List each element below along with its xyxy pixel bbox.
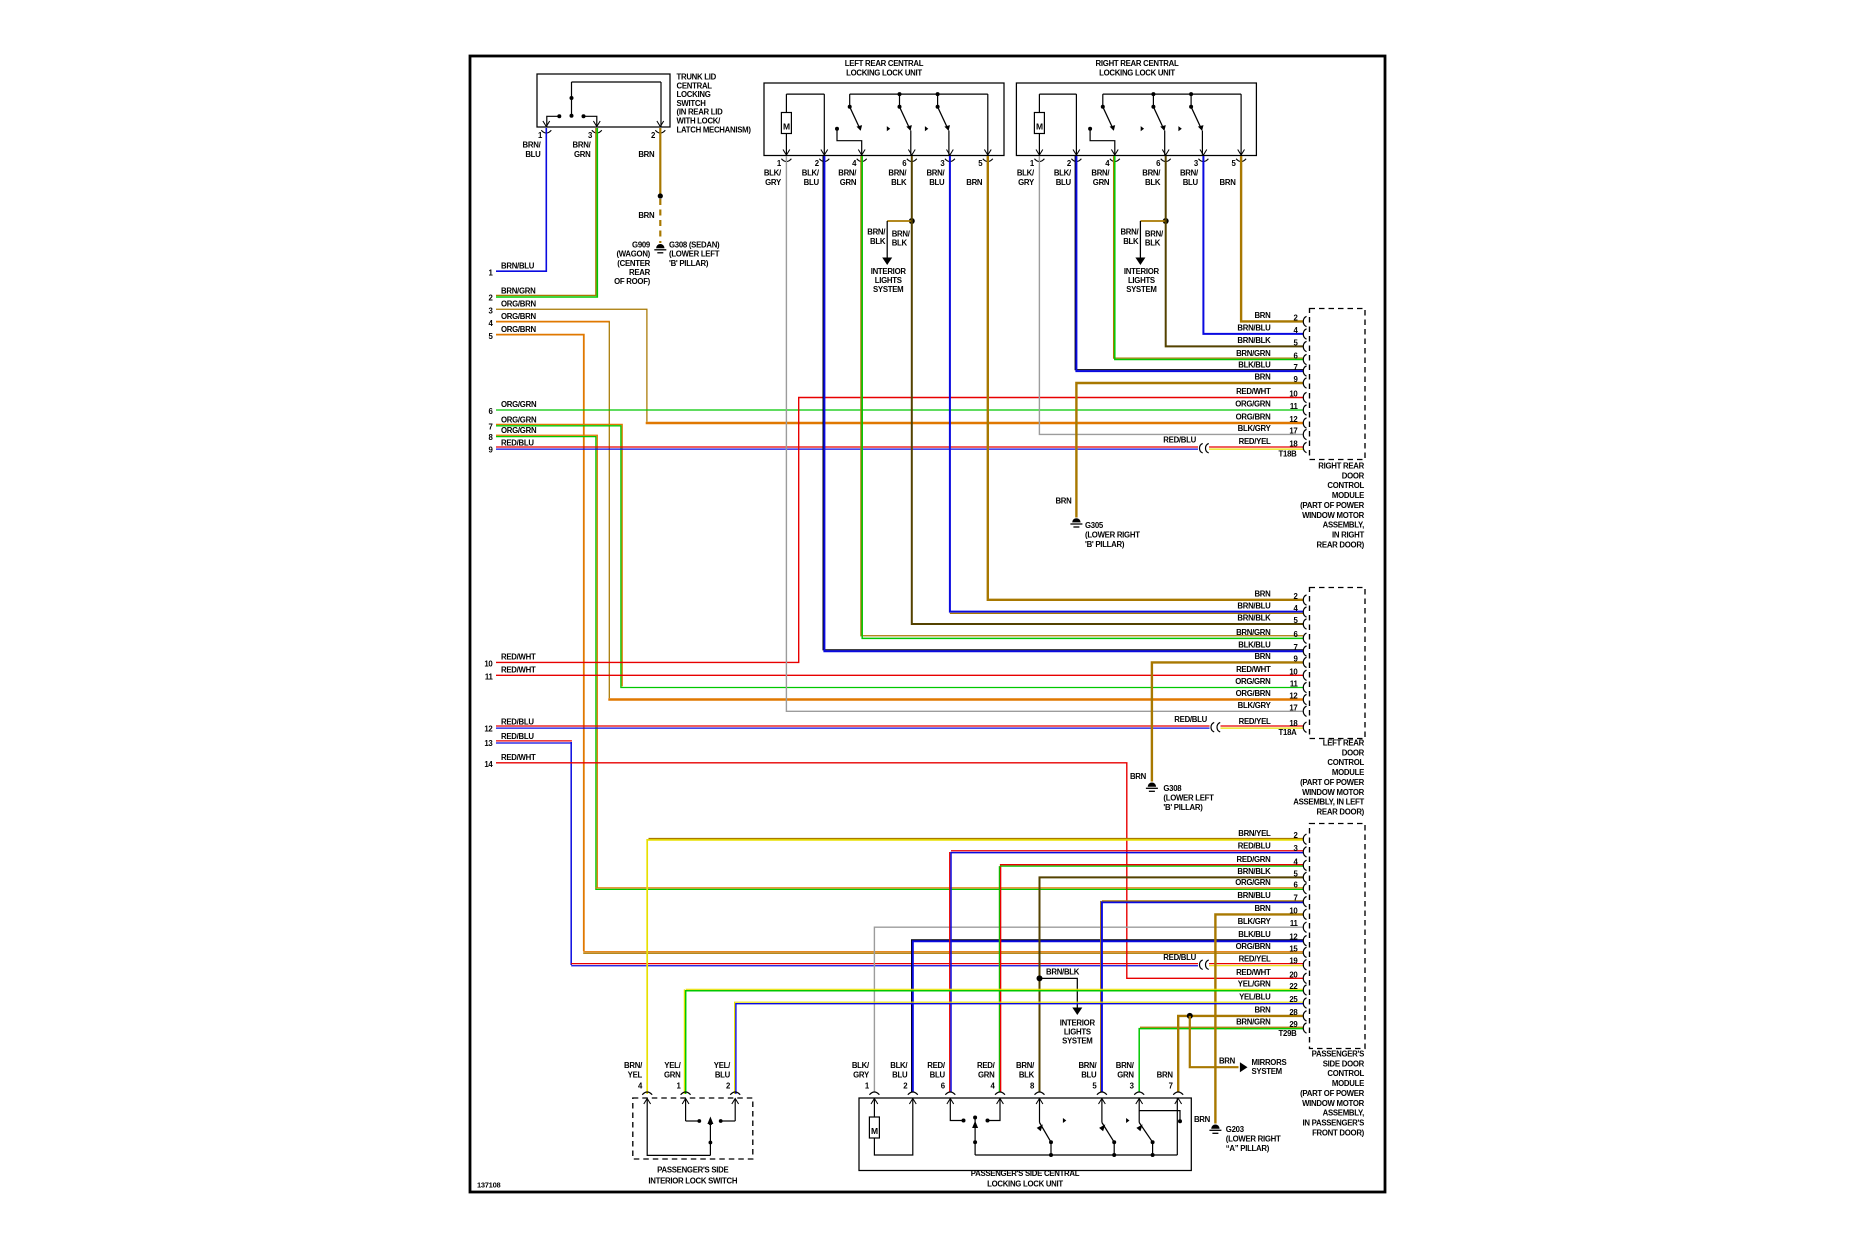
- svg-text:IN RIGHT: IN RIGHT: [1332, 530, 1364, 539]
- svg-text:MODULE: MODULE: [1332, 768, 1364, 777]
- svg-text:5: 5: [978, 159, 983, 168]
- svg-text:6: 6: [488, 407, 493, 416]
- svg-text:10: 10: [1289, 906, 1298, 915]
- svg-text:BRN: BRN: [1254, 590, 1271, 599]
- svg-text:(IN REAR LID: (IN REAR LID: [677, 108, 724, 117]
- svg-text:BRN/: BRN/: [1142, 168, 1161, 177]
- svg-text:3: 3: [1293, 844, 1298, 853]
- svg-text:2: 2: [903, 1081, 908, 1090]
- svg-text:(PART OF POWER: (PART OF POWER: [1300, 501, 1365, 510]
- svg-text:3: 3: [940, 159, 945, 168]
- svg-text:BLU: BLU: [1056, 178, 1072, 187]
- svg-text:BRN: BRN: [638, 150, 655, 159]
- svg-text:GRY: GRY: [853, 1070, 870, 1079]
- svg-text:BRN/GRN: BRN/GRN: [1236, 628, 1271, 637]
- svg-text:T29B: T29B: [1279, 1029, 1298, 1038]
- svg-text:BLK/GRY: BLK/GRY: [1238, 701, 1272, 710]
- svg-text:T18A: T18A: [1279, 728, 1298, 737]
- svg-text:ASSEMBLY,: ASSEMBLY,: [1323, 1109, 1365, 1118]
- svg-text:BRN: BRN: [1220, 178, 1237, 187]
- svg-text:25: 25: [1289, 995, 1298, 1004]
- svg-text:(LOWER LEFT: (LOWER LEFT: [669, 250, 720, 259]
- svg-text:BLK: BLK: [1145, 239, 1161, 248]
- svg-text:BLU: BLU: [715, 1070, 731, 1079]
- svg-text:RED/WHT: RED/WHT: [1236, 665, 1271, 674]
- svg-text:RED/YEL: RED/YEL: [1239, 954, 1271, 963]
- svg-text:BLU: BLU: [804, 178, 820, 187]
- svg-text:G308 (SEDAN): G308 (SEDAN): [669, 240, 720, 249]
- svg-text:12: 12: [484, 724, 493, 733]
- svg-text:ASSEMBLY, IN LEFT: ASSEMBLY, IN LEFT: [1293, 798, 1364, 807]
- svg-text:BLK/: BLK/: [1054, 168, 1072, 177]
- svg-text:ORG/BRN: ORG/BRN: [501, 299, 537, 308]
- svg-text:BLK: BLK: [870, 237, 886, 246]
- svg-text:4: 4: [488, 319, 493, 328]
- svg-text:BLK/BLU: BLK/BLU: [1238, 641, 1271, 650]
- svg-text:BLU: BLU: [1081, 1070, 1097, 1079]
- svg-text:2: 2: [488, 294, 493, 303]
- svg-text:BLK: BLK: [892, 239, 908, 248]
- svg-text:6: 6: [1156, 159, 1161, 168]
- svg-text:ORG/GRN: ORG/GRN: [501, 400, 537, 409]
- svg-text:BRN/: BRN/: [1145, 229, 1164, 238]
- svg-text:9: 9: [488, 445, 493, 454]
- svg-text:GRN: GRN: [664, 1070, 681, 1079]
- svg-text:22: 22: [1289, 982, 1298, 991]
- svg-text:3: 3: [1130, 1081, 1135, 1090]
- svg-text:(WAGON): (WAGON): [616, 250, 650, 259]
- svg-text:PASSENGER'S SIDE CENTRAL: PASSENGER'S SIDE CENTRAL: [971, 1169, 1080, 1178]
- svg-text:7: 7: [1293, 643, 1297, 652]
- svg-text:BRN/BLK: BRN/BLK: [1237, 867, 1271, 876]
- svg-text:4: 4: [852, 159, 857, 168]
- svg-text:3: 3: [588, 131, 593, 140]
- svg-text:LIGHTS: LIGHTS: [1064, 1028, 1091, 1037]
- svg-text:5: 5: [1092, 1081, 1097, 1090]
- svg-text:SWITCH: SWITCH: [677, 99, 707, 108]
- svg-text:LIGHTS: LIGHTS: [875, 276, 902, 285]
- svg-text:BRN: BRN: [1219, 1056, 1236, 1065]
- svg-text:ORG/GRN: ORG/GRN: [1235, 878, 1271, 887]
- svg-text:29: 29: [1289, 1020, 1298, 1029]
- svg-text:12: 12: [1289, 692, 1298, 701]
- svg-text:10: 10: [484, 660, 493, 669]
- svg-text:(PART OF POWER: (PART OF POWER: [1300, 1089, 1365, 1098]
- svg-text:RED/WHT: RED/WHT: [1236, 387, 1271, 396]
- svg-text:BRN: BRN: [1254, 1006, 1271, 1015]
- svg-text:BRN/: BRN/: [1016, 1061, 1035, 1070]
- svg-text:DOOR: DOOR: [1342, 471, 1365, 480]
- svg-text:GRY: GRY: [1018, 178, 1035, 187]
- svg-text:RED/: RED/: [927, 1061, 946, 1070]
- svg-text:YEL/BLU: YEL/BLU: [1239, 993, 1271, 1002]
- svg-text:RED/BLU: RED/BLU: [501, 732, 534, 741]
- svg-text:BRN/YEL: BRN/YEL: [1238, 829, 1271, 838]
- svg-text:PASSENGER'S: PASSENGER'S: [1312, 1050, 1364, 1059]
- svg-text:LOCKING LOCK UNIT: LOCKING LOCK UNIT: [1099, 68, 1175, 77]
- svg-text:G308: G308: [1163, 784, 1182, 793]
- svg-text:ORG/GRN: ORG/GRN: [501, 415, 537, 424]
- svg-text:4: 4: [990, 1081, 995, 1090]
- svg-text:BLU: BLU: [1183, 178, 1199, 187]
- svg-text:BRN/BLK: BRN/BLK: [1237, 336, 1271, 345]
- svg-text:BRN/: BRN/: [926, 168, 945, 177]
- svg-text:2: 2: [651, 131, 656, 140]
- svg-text:11: 11: [485, 673, 494, 682]
- svg-text:RED/WHT: RED/WHT: [501, 653, 536, 662]
- svg-text:BRN/: BRN/: [892, 229, 911, 238]
- svg-text:M: M: [783, 122, 790, 132]
- svg-text:RED/BLU: RED/BLU: [501, 438, 534, 447]
- svg-text:BLK/GRY: BLK/GRY: [1238, 917, 1272, 926]
- svg-text:4: 4: [1105, 159, 1110, 168]
- svg-text:“A” PILLAR): “A” PILLAR): [1226, 1144, 1270, 1153]
- svg-text:ORG/GRN: ORG/GRN: [501, 426, 537, 435]
- svg-text:BRN/: BRN/: [867, 228, 886, 237]
- svg-text:5: 5: [488, 332, 493, 341]
- svg-text:'B' PILLAR): 'B' PILLAR): [1085, 540, 1125, 549]
- svg-text:BRN/: BRN/: [624, 1061, 643, 1070]
- svg-text:11: 11: [1290, 919, 1299, 928]
- svg-text:INTERIOR LOCK SWITCH: INTERIOR LOCK SWITCH: [648, 1177, 737, 1186]
- svg-text:BRN: BRN: [1254, 652, 1271, 661]
- svg-text:YEL/GRN: YEL/GRN: [1238, 980, 1271, 989]
- svg-text:BLK/: BLK/: [890, 1061, 908, 1070]
- svg-text:17: 17: [1289, 427, 1297, 436]
- svg-text:RED/YEL: RED/YEL: [1239, 437, 1271, 446]
- svg-text:BRN/: BRN/: [1116, 1061, 1135, 1070]
- svg-text:7: 7: [1169, 1081, 1173, 1090]
- svg-text:(LOWER RIGHT: (LOWER RIGHT: [1226, 1135, 1281, 1144]
- svg-text:BLK/BLU: BLK/BLU: [1238, 930, 1271, 939]
- svg-text:2: 2: [726, 1081, 731, 1090]
- svg-text:BRN/: BRN/: [888, 168, 907, 177]
- svg-text:BRN: BRN: [1254, 373, 1271, 382]
- svg-text:20: 20: [1289, 970, 1298, 979]
- svg-text:LEFT REAR: LEFT REAR: [1323, 739, 1365, 748]
- svg-text:(CENTER: (CENTER: [617, 259, 650, 268]
- svg-text:ORG/BRN: ORG/BRN: [1236, 413, 1272, 422]
- svg-text:RED/: RED/: [977, 1061, 996, 1070]
- svg-text:BLK/GRY: BLK/GRY: [1238, 424, 1272, 433]
- svg-text:WINDOW MOTOR: WINDOW MOTOR: [1302, 511, 1365, 520]
- svg-text:3: 3: [488, 306, 493, 315]
- svg-text:GRN: GRN: [978, 1070, 995, 1079]
- svg-text:SYSTEM: SYSTEM: [1252, 1067, 1282, 1076]
- svg-text:2: 2: [1067, 159, 1072, 168]
- svg-text:10: 10: [1289, 390, 1298, 399]
- svg-text:BRN/: BRN/: [1180, 168, 1199, 177]
- svg-text:SYSTEM: SYSTEM: [873, 285, 903, 294]
- svg-text:T18B: T18B: [1279, 450, 1298, 459]
- svg-text:(LOWER RIGHT: (LOWER RIGHT: [1085, 530, 1140, 539]
- svg-text:LOCKING LOCK UNIT: LOCKING LOCK UNIT: [846, 68, 922, 77]
- svg-text:GRN: GRN: [840, 178, 857, 187]
- svg-text:BRN/: BRN/: [1078, 1061, 1097, 1070]
- svg-text:'B' PILLAR): 'B' PILLAR): [669, 259, 709, 268]
- svg-text:1: 1: [1030, 159, 1035, 168]
- svg-text:BLK/: BLK/: [802, 168, 820, 177]
- svg-text:GRN: GRN: [1117, 1070, 1134, 1079]
- svg-text:LIGHTS: LIGHTS: [1128, 276, 1155, 285]
- svg-text:BLK: BLK: [1019, 1070, 1035, 1079]
- svg-text:INTERIOR: INTERIOR: [871, 267, 907, 276]
- svg-text:28: 28: [1289, 1008, 1298, 1017]
- svg-text:8: 8: [488, 433, 493, 442]
- svg-text:RED/WHT: RED/WHT: [501, 753, 536, 762]
- svg-text:M: M: [1036, 122, 1043, 132]
- svg-text:BLU: BLU: [525, 150, 541, 159]
- svg-text:RED/BLU: RED/BLU: [1163, 436, 1196, 445]
- svg-text:7: 7: [488, 422, 492, 431]
- svg-text:MIRRORS: MIRRORS: [1252, 1058, 1287, 1067]
- svg-text:CONTROL: CONTROL: [1327, 1069, 1364, 1078]
- svg-text:RIGHT REAR: RIGHT REAR: [1318, 462, 1364, 471]
- svg-text:LOCKING LOCK UNIT: LOCKING LOCK UNIT: [987, 1179, 1063, 1188]
- svg-text:G203: G203: [1226, 1125, 1245, 1134]
- svg-text:LEFT REAR CENTRAL: LEFT REAR CENTRAL: [845, 59, 924, 68]
- svg-text:YEL/: YEL/: [664, 1061, 681, 1070]
- svg-text:BLK: BLK: [1145, 178, 1161, 187]
- svg-text:RED/BLU: RED/BLU: [1163, 953, 1196, 962]
- svg-text:PASSENGER'S SIDE: PASSENGER'S SIDE: [657, 1166, 728, 1175]
- svg-text:IN PASSENGER'S: IN PASSENGER'S: [1303, 1118, 1365, 1127]
- svg-text:ORG/BRN: ORG/BRN: [1236, 942, 1272, 951]
- svg-text:BLK: BLK: [891, 178, 907, 187]
- svg-text:FRONT DOOR): FRONT DOOR): [1312, 1128, 1365, 1137]
- svg-text:BRN: BRN: [1194, 1115, 1211, 1124]
- svg-text:BRN: BRN: [1130, 772, 1147, 781]
- svg-text:(PART OF POWER: (PART OF POWER: [1300, 778, 1365, 787]
- svg-text:18: 18: [1289, 719, 1298, 728]
- svg-text:YEL/: YEL/: [714, 1061, 731, 1070]
- svg-text:DOOR: DOOR: [1342, 748, 1365, 757]
- svg-text:REAR DOOR): REAR DOOR): [1317, 807, 1365, 816]
- svg-text:BRN/BLU: BRN/BLU: [1237, 324, 1271, 333]
- svg-text:ORG/GRN: ORG/GRN: [1235, 677, 1271, 686]
- svg-text:14: 14: [484, 760, 493, 769]
- svg-text:1: 1: [777, 159, 782, 168]
- svg-text:ASSEMBLY,: ASSEMBLY,: [1323, 521, 1365, 530]
- svg-text:2: 2: [815, 159, 820, 168]
- svg-text:12: 12: [1289, 415, 1298, 424]
- svg-text:ORG/BRN: ORG/BRN: [501, 312, 537, 321]
- svg-text:CONTROL: CONTROL: [1327, 758, 1364, 767]
- svg-text:CENTRAL: CENTRAL: [677, 81, 713, 90]
- svg-text:5: 5: [1232, 159, 1237, 168]
- svg-text:REAR DOOR): REAR DOOR): [1317, 540, 1365, 549]
- svg-text:WINDOW MOTOR: WINDOW MOTOR: [1302, 788, 1365, 797]
- svg-text:ORG/BRN: ORG/BRN: [501, 325, 537, 334]
- svg-text:G909: G909: [632, 240, 651, 249]
- svg-text:BRN: BRN: [1254, 904, 1271, 913]
- svg-text:CONTROL: CONTROL: [1327, 481, 1364, 490]
- svg-text:3: 3: [1194, 159, 1199, 168]
- svg-text:BLK: BLK: [1123, 237, 1139, 246]
- svg-text:BLK/: BLK/: [1017, 168, 1035, 177]
- svg-text:17: 17: [1289, 703, 1297, 712]
- svg-text:RED/WHT: RED/WHT: [501, 666, 536, 675]
- svg-text:GRN: GRN: [574, 150, 591, 159]
- svg-text:BLU: BLU: [892, 1070, 908, 1079]
- svg-text:BRN/BLK: BRN/BLK: [1237, 614, 1271, 623]
- svg-text:WITH LOCK/: WITH LOCK/: [677, 117, 722, 126]
- svg-text:TRUNK LID: TRUNK LID: [677, 73, 717, 82]
- svg-text:MODULE: MODULE: [1332, 1079, 1364, 1088]
- svg-text:RIGHT REAR CENTRAL: RIGHT REAR CENTRAL: [1096, 59, 1179, 68]
- svg-text:BRN/GRN: BRN/GRN: [1236, 1018, 1271, 1027]
- svg-text:ORG/BRN: ORG/BRN: [1236, 689, 1272, 698]
- svg-text:8: 8: [1030, 1081, 1035, 1090]
- svg-text:BRN/BLK: BRN/BLK: [1046, 968, 1080, 977]
- svg-text:7: 7: [1293, 894, 1297, 903]
- svg-text:6: 6: [941, 1081, 946, 1090]
- svg-text:GRN: GRN: [1093, 178, 1110, 187]
- svg-text:1: 1: [865, 1081, 870, 1090]
- svg-text:RED/YEL: RED/YEL: [1239, 717, 1271, 726]
- svg-text:RED/WHT: RED/WHT: [1236, 968, 1271, 977]
- svg-text:BLK/BLU: BLK/BLU: [1238, 361, 1271, 370]
- svg-text:15: 15: [1289, 944, 1298, 953]
- svg-text:M: M: [871, 1126, 878, 1136]
- svg-text:1: 1: [488, 268, 493, 277]
- svg-text:BRN/BLU: BRN/BLU: [1237, 602, 1271, 611]
- svg-text:BRN/: BRN/: [573, 141, 592, 150]
- svg-text:10: 10: [1289, 667, 1298, 676]
- svg-text:RED/GRN: RED/GRN: [1237, 855, 1272, 864]
- svg-text:BRN: BRN: [1157, 1070, 1174, 1079]
- svg-text:BRN: BRN: [638, 211, 655, 220]
- svg-text:13: 13: [484, 739, 493, 748]
- svg-text:19: 19: [1289, 957, 1298, 966]
- svg-text:BRN: BRN: [966, 178, 983, 187]
- svg-text:BRN: BRN: [1055, 496, 1072, 505]
- svg-text:6: 6: [902, 159, 907, 168]
- svg-text:GRY: GRY: [765, 178, 782, 187]
- svg-text:BRN: BRN: [1254, 311, 1271, 320]
- svg-text:BRN/: BRN/: [523, 141, 542, 150]
- svg-text:11: 11: [1290, 680, 1299, 689]
- svg-text:REAR: REAR: [629, 268, 651, 277]
- svg-text:RED/BLU: RED/BLU: [501, 717, 534, 726]
- svg-text:'B' PILLAR): 'B' PILLAR): [1163, 803, 1203, 812]
- svg-text:(LOWER LEFT: (LOWER LEFT: [1163, 794, 1214, 803]
- svg-text:INTERIOR: INTERIOR: [1124, 267, 1160, 276]
- svg-text:1: 1: [676, 1081, 681, 1090]
- svg-text:RED/BLU: RED/BLU: [1238, 842, 1271, 851]
- svg-text:11: 11: [1290, 402, 1299, 411]
- svg-text:SIDE DOOR: SIDE DOOR: [1323, 1059, 1365, 1068]
- svg-text:YEL: YEL: [628, 1070, 643, 1079]
- svg-text:BLK/: BLK/: [764, 168, 782, 177]
- svg-text:BRN/GRN: BRN/GRN: [501, 287, 536, 296]
- svg-text:BRN/BLU: BRN/BLU: [501, 261, 535, 270]
- svg-text:18: 18: [1289, 440, 1298, 449]
- svg-text:OF ROOF): OF ROOF): [614, 277, 651, 286]
- svg-text:BRN/: BRN/: [838, 168, 857, 177]
- svg-text:BLU: BLU: [929, 178, 945, 187]
- svg-text:137108: 137108: [477, 1181, 500, 1190]
- svg-text:G305: G305: [1085, 521, 1104, 530]
- svg-text:LATCH MECHANISM): LATCH MECHANISM): [677, 125, 752, 134]
- svg-text:LOCKING: LOCKING: [677, 90, 711, 99]
- svg-text:BRN/: BRN/: [1120, 228, 1139, 237]
- svg-text:12: 12: [1289, 933, 1298, 942]
- svg-text:BRN/BLU: BRN/BLU: [1237, 891, 1271, 900]
- svg-text:4: 4: [638, 1081, 643, 1090]
- svg-text:7: 7: [1293, 363, 1297, 372]
- svg-text:WINDOW MOTOR: WINDOW MOTOR: [1302, 1099, 1365, 1108]
- svg-text:ORG/GRN: ORG/GRN: [1235, 400, 1271, 409]
- svg-text:SYSTEM: SYSTEM: [1062, 1037, 1092, 1046]
- svg-text:SYSTEM: SYSTEM: [1126, 285, 1156, 294]
- svg-text:RED/BLU: RED/BLU: [1174, 715, 1207, 724]
- svg-text:BLU: BLU: [930, 1070, 946, 1079]
- svg-text:BRN/: BRN/: [1091, 168, 1110, 177]
- svg-text:1: 1: [538, 131, 543, 140]
- svg-text:BRN/GRN: BRN/GRN: [1236, 349, 1271, 358]
- svg-text:INTERIOR: INTERIOR: [1060, 1019, 1096, 1028]
- svg-text:BLK/: BLK/: [852, 1061, 870, 1070]
- svg-text:MODULE: MODULE: [1332, 491, 1364, 500]
